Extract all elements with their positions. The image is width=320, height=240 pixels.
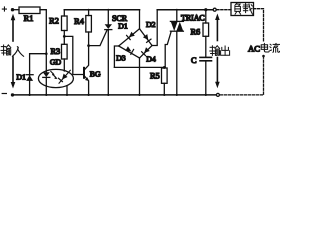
wire R1 to corner down to opto LED (40, 10, 46, 73)
thyristor SCR (107, 10, 109, 25)
char zai 载 (243, 3, 253, 14)
svg-text:R5: R5 (150, 71, 160, 80)
wire TRIAC gate (165, 32, 171, 67)
node junction R5 tap (163, 66, 166, 69)
output down arrow (216, 58, 218, 83)
wire dashed right drop lower (219, 56, 263, 95)
char fu 负 (235, 3, 241, 14)
svg-text:D1: D1 (118, 22, 128, 31)
optocoupler photodiode (59, 70, 70, 83)
optocoupler LED (43, 72, 50, 77)
char shu 输 (1, 45, 11, 55)
wire bridge left vertex to gate rail (114, 46, 118, 67)
wire D1 branch (30, 54, 47, 71)
resistor R1 (19, 7, 40, 14)
node output top terminal circle (213, 8, 216, 11)
diode bridge D3 edge (119, 46, 140, 58)
svg-text:D3: D3 (116, 54, 126, 63)
optocoupler light arrows (51, 71, 54, 74)
wire bottom rail (13, 94, 217, 96)
wire top rail right segment (157, 9, 213, 11)
node junction R2 R3 (63, 35, 66, 38)
wire SCR gate (89, 31, 107, 46)
triac TRIAC (176, 10, 178, 22)
svg-text:GD: GD (50, 57, 62, 66)
wire base branch from R2 R3 junction (64, 36, 84, 74)
output up arrow (216, 19, 218, 41)
wire dashed load to right drop (254, 9, 264, 42)
input up arrow (12, 20, 14, 42)
minus sign input polarity (2, 93, 7, 94)
wire top rail left segment (64, 9, 139, 11)
node output bottom terminal circle (216, 93, 219, 96)
label 输入 input text (1, 45, 24, 56)
wire dashed to load (217, 9, 231, 11)
wire photodiode cathode to rail (66, 86, 68, 95)
svg-text:R6: R6 (190, 28, 200, 37)
diode bridge D2 edge (140, 29, 153, 46)
char chu 出 (221, 46, 230, 55)
load box 负载 (231, 3, 254, 16)
wire bridge right vertex riser (152, 10, 157, 46)
resistor R3 (63, 36, 65, 44)
svg-text:R1: R1 (24, 14, 34, 23)
diode bridge D1 edge (119, 29, 140, 46)
node junction dots on rails (29, 9, 207, 96)
char dian 电 (261, 43, 269, 52)
svg-text:TRIAC: TRIAC (181, 14, 205, 23)
wire bridge bottom lead (139, 58, 141, 95)
svg-text:R2: R2 (49, 17, 59, 26)
svg-text:AC: AC (248, 44, 260, 54)
wire bridge top lead (139, 10, 141, 29)
optocoupler GD ellipse (38, 69, 73, 87)
transistor BG (83, 68, 85, 78)
svg-text:D4: D4 (146, 54, 156, 63)
node junction D1 tap (45, 52, 48, 55)
capacitor C (200, 56, 212, 58)
resistor R5 (163, 66, 165, 69)
svg-text:D2: D2 (146, 20, 156, 29)
diode D1 protection (29, 71, 31, 95)
node junction R4 collector gate (87, 44, 90, 47)
node dashed corner dot (262, 55, 265, 58)
char shu 输 (210, 46, 220, 56)
svg-text:R4: R4 (74, 17, 85, 26)
svg-text:C: C (191, 56, 197, 65)
resistor R6 (205, 10, 207, 23)
char liu 流 (270, 43, 280, 52)
resistor R4 (88, 10, 90, 16)
node junction R6 tap (204, 8, 207, 11)
wire input dot to R1 (13, 9, 20, 11)
label 输出 output text (210, 46, 230, 56)
char ru 入 (12, 47, 23, 57)
diode bridge D4 edge (140, 46, 153, 59)
svg-text:D1: D1 (16, 73, 26, 82)
svg-text:R3: R3 (50, 47, 60, 56)
svg-text:BG: BG (90, 69, 101, 78)
node input top terminal dot (11, 8, 14, 11)
node input bottom terminal dot (11, 93, 14, 96)
plus sign input polarity (2, 6, 7, 11)
input down arrow (12, 57, 14, 83)
resistor R2 (63, 10, 65, 16)
wire gate bus (114, 66, 165, 68)
